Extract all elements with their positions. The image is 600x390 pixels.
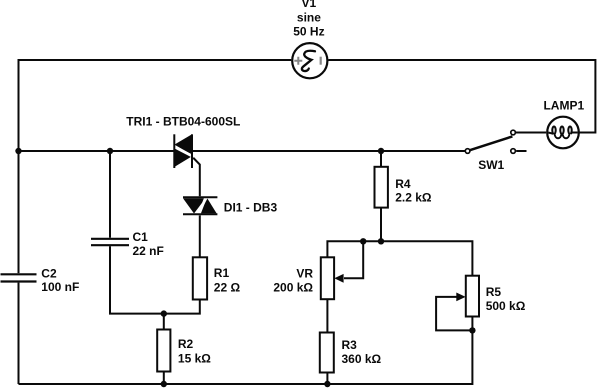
node R2-bottom [161,381,167,387]
capacitor C2 [1,274,37,281]
node main-left [15,148,21,154]
svg-text:R4: R4 [395,177,411,191]
node R4-bottom [378,238,384,244]
svg-text:TRI1 - BTB04-600SL: TRI1 - BTB04-600SL [126,115,240,129]
switch SW1 [465,130,515,153]
svg-text:22 Ω: 22 Ω [214,281,241,295]
wire R2 top stub [163,314,165,330]
wire VR wiper riser [344,241,363,278]
resistor R2 [157,330,170,372]
diac DI1 [183,197,217,216]
node R2-top [161,310,167,316]
svg-text:R2: R2 [178,337,194,351]
resistor R3 [320,333,334,373]
wire top-left horizontal from left rail to V1 [19,60,292,151]
svg-text:LAMP1: LAMP1 [543,98,584,112]
svg-text:SW1: SW1 [478,158,504,172]
wire main gate line right segment triac to switch [192,150,465,152]
node VR-wiper [360,238,366,244]
svg-text:50 Hz: 50 Hz [293,25,324,39]
wire bottom rail [19,330,473,384]
resistor R4 [375,167,388,208]
triac TRI1 [174,134,194,168]
node R3-bottom [324,381,330,387]
svg-text:V1: V1 [302,0,317,10]
wire switch upper contact to lamp [516,132,546,134]
svg-text:R5: R5 [486,285,502,299]
node R4-top [378,148,384,154]
svg-text:VR: VR [296,266,313,280]
lamp LAMP1 [547,117,579,149]
resistor R1 [193,257,207,299]
wire mid rail VR top to R5 top [327,241,472,275]
voltage source V1 [292,43,327,78]
svg-text:R1: R1 [214,266,230,280]
svg-text:DI1 - DB3: DI1 - DB3 [224,200,278,214]
svg-text:500 kΩ: 500 kΩ [486,299,526,313]
wire VR bottom to R3 top [326,299,328,332]
svg-text:22 nF: 22 nF [133,244,164,258]
svg-text:200 kΩ: 200 kΩ [273,281,313,295]
wire R4 top stub [380,151,382,167]
svg-text:C2: C2 [41,267,57,281]
wire R3 bottom stub [326,373,328,385]
wire R5 wiper wrap-around [436,297,472,331]
svg-text:360 kΩ: 360 kΩ [342,352,382,366]
wire left rail down through C2 to bottom [18,151,20,273]
potentiometer R5 [456,276,479,317]
svg-text:15 kΩ: 15 kΩ [178,352,211,366]
wire stub right of switch lower contact [516,150,526,152]
wire main gate line left segment [19,150,175,152]
wire diac to R1 top [199,215,201,257]
potentiometer VR [321,257,344,299]
wire C1 branch vertical upper [109,151,111,238]
node R5-bottom [469,327,475,333]
svg-text:100 nF: 100 nF [41,280,79,294]
svg-text:R3: R3 [342,338,358,352]
svg-text:2.2 kΩ: 2.2 kΩ [395,191,432,205]
wire C1 branch vertical lower and horizontal to R1 bottom [110,246,200,313]
wire top-right horizontal from V1 to right rail down to lamp [328,60,595,133]
capacitor C1 [91,239,129,245]
wire R4 bottom stub to mid rail [380,208,382,242]
node C1-tap [107,148,113,154]
svg-text:C1: C1 [133,230,149,244]
wire R2 bottom stub [163,372,165,385]
wire triac gate to diac [192,157,200,197]
svg-text:sine: sine [297,10,321,24]
wire R5 bottom stub [471,317,473,331]
